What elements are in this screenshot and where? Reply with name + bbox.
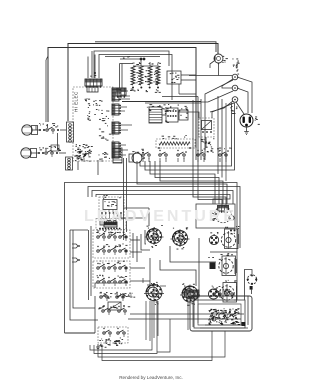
infinite switch box 1 (93, 230, 130, 258)
label terminal block (232, 59, 239, 75)
junction (90, 72, 96, 80)
wire (193, 160, 226, 206)
wire (89, 226, 92, 300)
switch S4 (142, 150, 167, 159)
wire (128, 318, 241, 320)
lamp DSI (210, 54, 228, 68)
door switch box (98, 327, 128, 343)
surface element E6 (144, 282, 164, 305)
connector blob 2 (104, 222, 117, 227)
oven lamp 2 (21, 148, 37, 158)
wire (88, 51, 95, 78)
relay K2 box (199, 118, 214, 137)
infinite switch box 2 (93, 261, 130, 288)
wire (90, 300, 152, 350)
label cluster S1 (74, 149, 91, 161)
wire (147, 258, 150, 285)
wire (178, 112, 199, 118)
wire (95, 283, 128, 288)
motor M2 (247, 275, 258, 294)
wire (205, 80, 233, 160)
wire (70, 229, 88, 231)
surface element E2 (145, 225, 164, 248)
wire (102, 331, 212, 361)
wire (59, 152, 66, 154)
connector P5b (87, 87, 98, 92)
wire (188, 297, 198, 330)
wire (95, 42, 216, 52)
label column 3 (98, 100, 105, 138)
wire (195, 148, 197, 160)
wire (236, 252, 238, 284)
surface element E3 (171, 227, 190, 249)
wire (84, 158, 226, 162)
wire (201, 91, 233, 102)
surface element E8 (220, 280, 237, 302)
wire (94, 296, 96, 333)
wire (143, 278, 166, 341)
wire (124, 208, 149, 226)
wire (120, 145, 128, 155)
connector P3 (112, 104, 121, 115)
wire (68, 44, 218, 122)
connector S3 (113, 148, 122, 163)
wire (57, 133, 59, 150)
infinite switch SW1 (96, 230, 127, 241)
wire (236, 102, 244, 114)
wire (141, 60, 150, 66)
watermark (84, 208, 237, 225)
connector P4 (112, 122, 121, 134)
label row mid (147, 106, 188, 111)
wire (181, 75, 196, 80)
wire (88, 187, 240, 233)
wire (120, 64, 134, 89)
wire (121, 95, 130, 97)
wire (70, 295, 98, 320)
wire (102, 214, 121, 218)
wire (120, 58, 140, 60)
label HI ELEC (74, 91, 79, 112)
wire (247, 296, 249, 325)
wire (192, 100, 194, 160)
wire (210, 228, 237, 252)
wire (122, 101, 201, 103)
wire (70, 230, 73, 295)
connector P7 (149, 104, 169, 123)
ground (244, 127, 249, 135)
wire (239, 232, 241, 248)
lamp1 terminals (39, 123, 59, 134)
cluster marks (99, 292, 135, 348)
surface element E7 (180, 283, 200, 305)
wire (140, 103, 232, 166)
wire (141, 234, 150, 250)
wire (46, 56, 48, 122)
wire (150, 161, 215, 204)
wire (48, 48, 196, 149)
cluster bottom (76, 144, 93, 158)
wire (205, 137, 207, 148)
broil element (156, 135, 195, 149)
wire (32, 129, 40, 131)
wire (222, 79, 233, 88)
surface element E4 cluster (209, 232, 218, 245)
wire (120, 91, 130, 99)
thermostat box (190, 296, 252, 331)
wire (96, 195, 230, 205)
wire (133, 233, 137, 262)
wire (99, 55, 172, 101)
svg-text:Rendered by LeadVenture, Inc.: Rendered by LeadVenture, Inc. (119, 375, 183, 380)
junction (123, 56, 146, 60)
infinite switch SW4 (97, 275, 128, 286)
surface element E8 cluster (209, 286, 221, 299)
wire (234, 284, 237, 300)
connector P10 (185, 290, 199, 299)
box K1 (167, 71, 181, 84)
latch switch cluster (98, 292, 130, 315)
wire (179, 84, 196, 94)
wire (65, 332, 96, 334)
wire (198, 238, 200, 293)
wire (45, 148, 47, 151)
switch row (213, 288, 233, 297)
wire (120, 107, 127, 111)
connector P6 (112, 142, 121, 158)
wire (218, 63, 220, 76)
wire (162, 97, 198, 161)
wire (238, 234, 240, 244)
thermostat cluster (208, 308, 245, 326)
wire (236, 286, 238, 300)
wire nut (72, 244, 80, 248)
wire (160, 260, 196, 286)
power plug P1 (240, 114, 260, 127)
connector P8 (166, 104, 179, 122)
wire (130, 240, 150, 281)
node L1 (232, 74, 238, 80)
wire (65, 183, 238, 334)
label column 4 (105, 111, 112, 141)
wire (98, 331, 225, 357)
node N (232, 85, 238, 91)
wire (221, 99, 223, 178)
wire (236, 259, 238, 273)
surface element E5 block (208, 257, 221, 269)
control box HI ELEC (73, 87, 113, 161)
wire (120, 125, 132, 130)
surface element E4 (221, 226, 239, 249)
left connector J2 (66, 157, 73, 170)
wire (145, 230, 146, 244)
wire (31, 152, 39, 154)
wire (130, 313, 244, 315)
wire (210, 101, 233, 112)
element box E1 (96, 219, 126, 235)
wire (234, 258, 236, 274)
inner box (194, 300, 245, 328)
infinite switch SW3 (97, 261, 127, 272)
wire (121, 217, 146, 219)
wire (237, 77, 252, 113)
switch S6 (217, 148, 232, 159)
wire (35, 126, 37, 130)
left connector J1 (67, 122, 74, 142)
label S2 (99, 152, 111, 159)
svg-text:HI ELEC: HI ELEC (74, 91, 79, 112)
wire (170, 246, 216, 262)
surface element E5 (219, 253, 236, 275)
label column 2 (93, 100, 98, 115)
wire (94, 51, 169, 78)
oven lamp 3 (129, 149, 145, 163)
coil bank (130, 62, 161, 93)
connector small (116, 88, 126, 98)
connector P5 (85, 79, 102, 88)
wire (145, 102, 201, 104)
wire (155, 161, 219, 204)
switch S5 (177, 150, 205, 159)
lamp2 terminals (38, 146, 60, 156)
oven lamp 1 (22, 125, 38, 135)
label wires (230, 106, 237, 114)
wire (160, 161, 223, 204)
wire (245, 270, 253, 301)
connector P2 (112, 88, 121, 101)
wire (225, 103, 227, 181)
svg-text:LEADVENTURE: LEADVENTURE (84, 208, 237, 225)
ground (96, 344, 100, 350)
wire (124, 158, 127, 240)
wire (189, 75, 232, 77)
junction marks (230, 230, 236, 235)
relay K3 box (99, 195, 124, 219)
wire (237, 88, 248, 113)
label K2 (201, 138, 215, 152)
wire (47, 124, 49, 128)
wire (212, 103, 234, 118)
wire (157, 319, 170, 352)
wire (200, 99, 202, 160)
wire (217, 96, 219, 174)
label column (85, 98, 91, 120)
wire (200, 325, 248, 328)
footer (119, 375, 183, 380)
node L2 (232, 97, 238, 103)
wire (60, 129, 66, 131)
wire (92, 191, 233, 205)
box small (179, 110, 188, 120)
wire (198, 160, 222, 206)
fan motor M1 (196, 204, 235, 228)
infinite switch SW2 (97, 244, 128, 255)
wire (162, 114, 166, 116)
wire nut (72, 258, 80, 262)
wire (145, 103, 235, 170)
wire (105, 56, 160, 58)
wire (78, 160, 98, 175)
component small (51, 145, 61, 151)
wire (94, 300, 157, 354)
wire (137, 161, 227, 204)
